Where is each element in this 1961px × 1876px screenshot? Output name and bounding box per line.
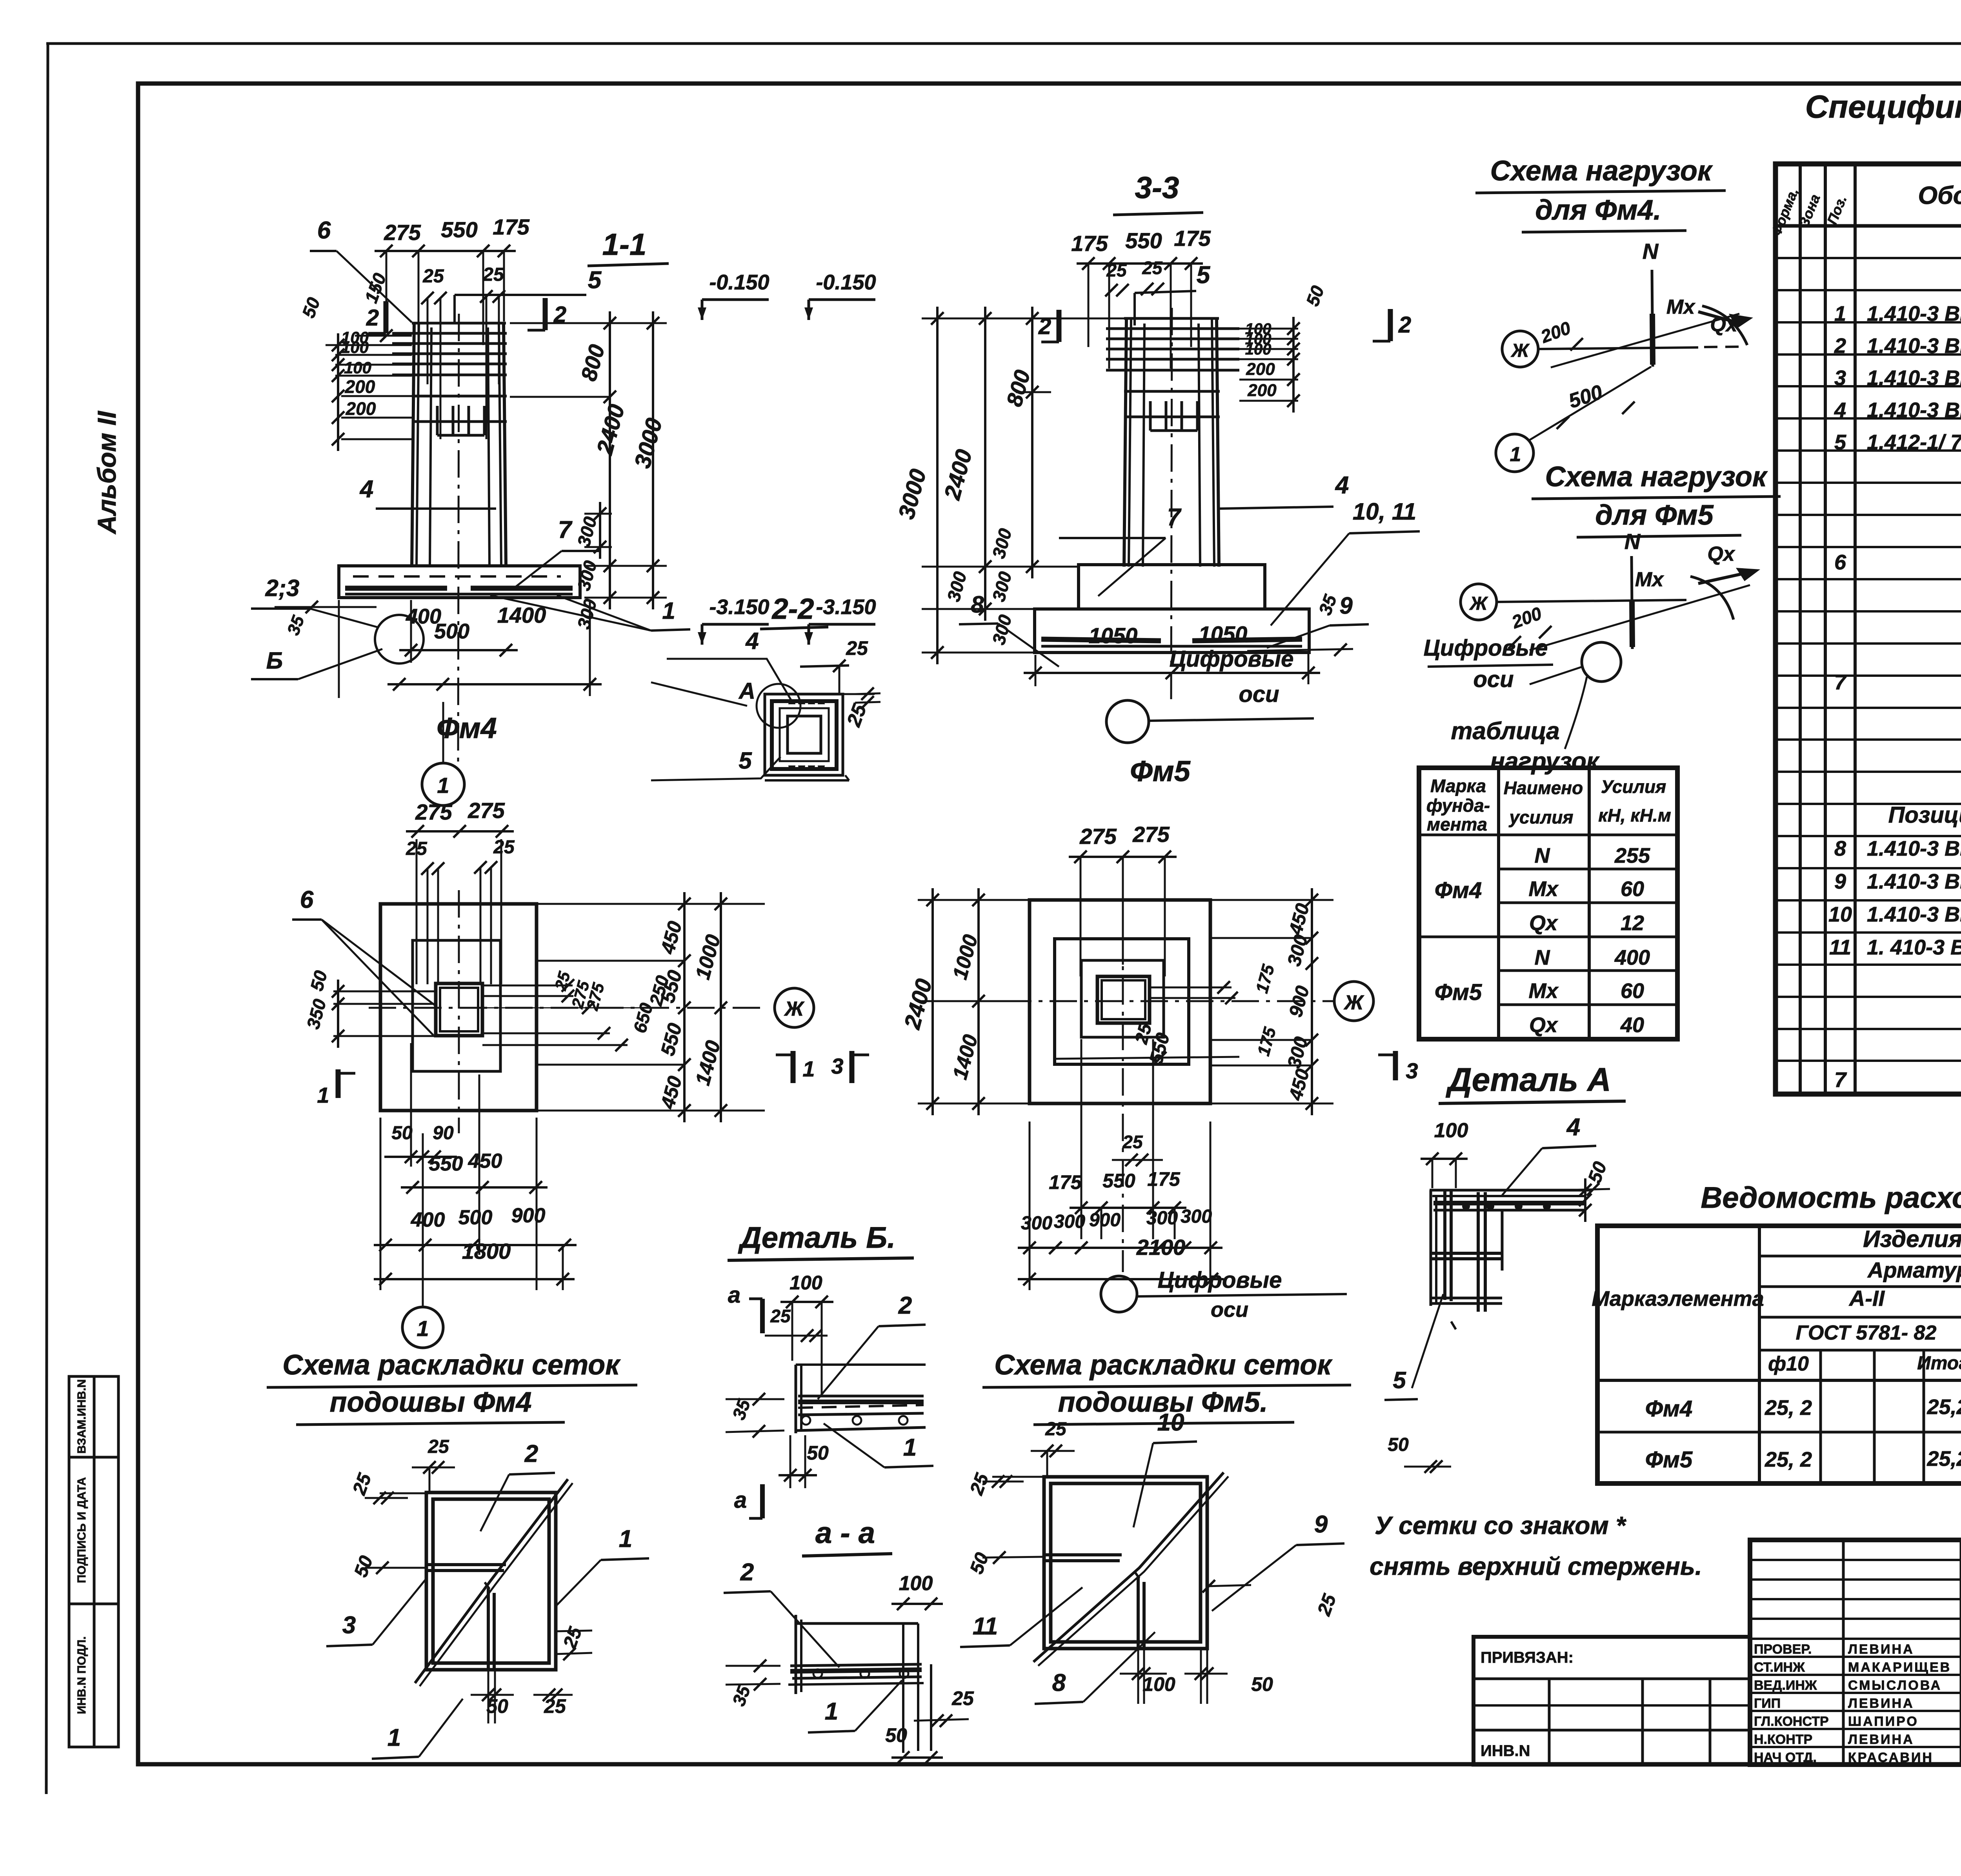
svg-text:Цифровые: Цифровые bbox=[1158, 1267, 1282, 1293]
plan FM5 section mark 3 bbox=[1378, 1051, 1418, 1083]
svg-text:N: N bbox=[1535, 946, 1550, 969]
svg-text:50: 50 bbox=[391, 1123, 413, 1143]
svg-text:1: 1 bbox=[1834, 302, 1846, 325]
section 2-2 dims 25 25 bbox=[800, 637, 880, 730]
plan FM4 outer footing bbox=[380, 904, 537, 1111]
plan FM5 bottom dims 25 175 550 175 bbox=[1049, 1039, 1186, 1239]
svg-text:3: 3 bbox=[1406, 1058, 1418, 1083]
section a-a labels bbox=[724, 1559, 974, 1764]
section 1-1 label B leader bbox=[251, 647, 382, 679]
section 1-1 title bbox=[588, 227, 669, 266]
plan FM5 axis Zh circle bbox=[1334, 982, 1373, 1021]
svg-text:4: 4 bbox=[1335, 472, 1349, 499]
svg-text:оси: оси bbox=[1239, 682, 1279, 707]
svg-text:25: 25 bbox=[951, 1687, 974, 1709]
svg-text:9: 9 bbox=[1314, 1511, 1328, 1538]
svg-text:25: 25 bbox=[1106, 260, 1127, 280]
section 1-1 bottom dims 400 1400 bbox=[339, 600, 602, 698]
svg-text:300: 300 bbox=[1181, 1206, 1212, 1227]
svg-text:МАКАРИЩЕВ: МАКАРИЩЕВ bbox=[1848, 1660, 1951, 1675]
svg-text:50: 50 bbox=[807, 1442, 829, 1464]
section 1-1 label 7 leader bbox=[514, 516, 600, 588]
svg-text:1: 1 bbox=[437, 773, 449, 798]
svg-text:N: N bbox=[1643, 239, 1659, 264]
mesh layout FM5 drawing bbox=[1033, 1472, 1228, 1666]
section 1-1 label 4 leader bbox=[359, 476, 496, 509]
svg-text:1. 410-3 Вып.1: 1. 410-3 Вып.1 bbox=[1867, 936, 1961, 959]
load table data bbox=[1435, 844, 1650, 1037]
svg-text:1: 1 bbox=[417, 1316, 429, 1341]
svg-text:200: 200 bbox=[1247, 381, 1277, 400]
svg-text:Qх: Qх bbox=[1707, 543, 1735, 565]
spec table concrete FM5 bbox=[1834, 1067, 1961, 1092]
svg-text:3-3: 3-3 bbox=[1135, 170, 1179, 205]
svg-text:25: 25 bbox=[544, 1695, 566, 1717]
svg-text:1-1: 1-1 bbox=[602, 227, 647, 262]
svg-text:100: 100 bbox=[1142, 1673, 1175, 1695]
svg-text:2-2: 2-2 bbox=[771, 593, 814, 625]
section 1-1 top dimensions 275 550 175 bbox=[375, 215, 530, 345]
section 1-1 dims 25 25 bbox=[421, 264, 505, 439]
svg-text:1.412-1/ 77 Вот.3.: 1.412-1/ 77 Вот.3. bbox=[1867, 431, 1961, 454]
svg-text:25, 2: 25, 2 bbox=[1765, 1396, 1812, 1420]
svg-text:200: 200 bbox=[1246, 360, 1275, 379]
svg-text:2: 2 bbox=[740, 1559, 754, 1586]
section 3-3 axis circle bbox=[1106, 646, 1314, 743]
svg-text:мента: мента bbox=[1427, 814, 1487, 834]
plan FM5 centre lines bbox=[1004, 886, 1333, 1272]
load table grid bbox=[1419, 768, 1677, 1039]
svg-text:4: 4 bbox=[1834, 398, 1846, 422]
elevation -3.150 (3-3) bbox=[804, 595, 876, 645]
svg-text:90: 90 bbox=[433, 1123, 454, 1143]
steel table data rows bbox=[1645, 1389, 1961, 1477]
svg-text:1: 1 bbox=[825, 1698, 838, 1725]
svg-text:1.410-3 Вып.1: 1.410-3 Вып.1 bbox=[1867, 334, 1961, 358]
svg-text:275: 275 bbox=[1132, 822, 1170, 847]
plan FM5 column formwork bbox=[1097, 976, 1150, 1023]
svg-text:а - а: а - а bbox=[815, 1516, 875, 1550]
svg-text:ВЗАМ.ИНВ.N: ВЗАМ.ИНВ.N bbox=[75, 1379, 88, 1454]
plan FM4 bottom dims 50 90 550 450 400 500 900 1800 bbox=[374, 1043, 577, 1290]
svg-text:ЛЕВИНА: ЛЕВИНА bbox=[1848, 1642, 1914, 1657]
steel consumption title bbox=[1701, 1181, 1961, 1214]
section 1-1 axis circle 1 bbox=[422, 702, 464, 805]
detail B slab bbox=[796, 1365, 926, 1433]
svg-text:400: 400 bbox=[406, 605, 441, 628]
svg-text:Фм5: Фм5 bbox=[1130, 755, 1191, 787]
svg-text:оси: оси bbox=[1211, 1298, 1248, 1322]
svg-text:1.410-3 Вып.1: 1.410-3 Вып.1 bbox=[1867, 302, 1961, 325]
section 3-3 label 7 leader bbox=[1059, 504, 1182, 596]
svg-text:2;3: 2;3 bbox=[265, 575, 300, 601]
plan FM4 inner dims 25 275 275 650 250 bbox=[482, 969, 673, 1051]
svg-text:550: 550 bbox=[1125, 228, 1162, 253]
svg-text:Схема нагрузок: Схема нагрузок bbox=[1545, 461, 1768, 493]
steel table grid bbox=[1597, 1226, 1961, 1483]
svg-text:оси: оси bbox=[1473, 667, 1513, 692]
section 3-3 right small dims 50 100x3 200x2 bbox=[1219, 283, 1328, 413]
mesh layout FM4 title bbox=[267, 1349, 637, 1425]
svg-text:11: 11 bbox=[1829, 936, 1851, 959]
svg-text:Мх: Мх bbox=[1528, 877, 1559, 901]
svg-text:550: 550 bbox=[441, 217, 477, 242]
svg-text:Альбом II: Альбом II bbox=[92, 411, 121, 535]
section 1-1 label 2;3 leader bbox=[251, 575, 378, 627]
svg-text:275: 275 bbox=[415, 800, 452, 824]
load scheme FM5 title bbox=[1532, 461, 1781, 537]
svg-text:275: 275 bbox=[1079, 824, 1117, 849]
plan FM4 left dims 350 50 bbox=[302, 968, 435, 1048]
detail B label 2 leader bbox=[818, 1292, 926, 1399]
svg-text:4: 4 bbox=[745, 628, 759, 654]
svg-text:200: 200 bbox=[345, 376, 375, 397]
svg-text:2: 2 bbox=[366, 305, 379, 331]
svg-text:ГЛ.КОНСТР: ГЛ.КОНСТР bbox=[1754, 1714, 1829, 1729]
section 3-3 label 8 leader bbox=[959, 591, 1059, 667]
svg-text:550: 550 bbox=[1102, 1170, 1135, 1192]
svg-text:Схема раскладки сеток: Схема раскладки сеток bbox=[282, 1349, 621, 1381]
svg-text:275: 275 bbox=[468, 798, 505, 823]
section 1-1 detail circle B bbox=[375, 615, 424, 664]
section 3-3 label 10,11 leader bbox=[1271, 498, 1420, 625]
svg-text:кН, кН.м: кН, кН.м bbox=[1598, 805, 1671, 825]
svg-text:1.410-3 Вып.1: 1.410-3 Вып.1 bbox=[1867, 837, 1961, 860]
svg-text:10: 10 bbox=[1828, 903, 1852, 926]
svg-text:-0.150: -0.150 bbox=[709, 271, 769, 294]
svg-text:усилия: усилия bbox=[1508, 807, 1573, 827]
svg-text:11: 11 bbox=[973, 1613, 998, 1640]
svg-text:60: 60 bbox=[1621, 877, 1644, 901]
svg-text:2: 2 bbox=[1834, 334, 1846, 358]
spec table rows FM4 bbox=[1834, 294, 1961, 454]
svg-text:Мх: Мх bbox=[1635, 568, 1664, 591]
detail B label 1 leader bbox=[824, 1423, 933, 1467]
svg-text:5: 5 bbox=[1197, 262, 1211, 289]
plan FM5 top dims 275 275 bbox=[1069, 822, 1177, 976]
svg-text:8: 8 bbox=[1834, 837, 1846, 860]
svg-text:50: 50 bbox=[885, 1724, 907, 1746]
detail B dim 100 25 bbox=[765, 1272, 833, 1396]
svg-text:Деталь Б.: Деталь Б. bbox=[738, 1221, 895, 1254]
svg-text:Марка: Марка bbox=[1430, 776, 1486, 796]
section 3-3 title bbox=[1113, 170, 1203, 215]
svg-text:300: 300 bbox=[1054, 1211, 1085, 1232]
svg-text:а: а bbox=[728, 1282, 740, 1308]
svg-text:25: 25 bbox=[1142, 258, 1163, 278]
FM4 label bbox=[437, 712, 497, 744]
svg-text:25: 25 bbox=[770, 1306, 791, 1326]
svg-text:Фм4: Фм4 bbox=[1435, 878, 1482, 903]
section 2-2 label 5 leader bbox=[651, 747, 780, 780]
title block outer bbox=[1750, 1540, 1961, 1765]
svg-text:25: 25 bbox=[1122, 1132, 1143, 1152]
section 2-2 column cross-section bbox=[765, 694, 843, 775]
svg-text:3: 3 bbox=[1834, 366, 1846, 390]
svg-text:400: 400 bbox=[411, 1209, 445, 1231]
spec table grid bbox=[1775, 164, 1961, 1094]
FM5 label bbox=[1130, 755, 1191, 787]
section 1-1 dim 35 left bbox=[275, 601, 377, 638]
svg-text:60: 60 bbox=[1621, 979, 1644, 1003]
svg-text:1: 1 bbox=[802, 1056, 815, 1081]
load scheme FM5 diagram bbox=[1461, 529, 1760, 749]
svg-text:175: 175 bbox=[1071, 231, 1108, 256]
svg-text:550: 550 bbox=[429, 1153, 463, 1175]
spec table bolt row bbox=[1834, 546, 1961, 584]
section 1-1 column mesh reinforcement bbox=[392, 333, 507, 435]
svg-text:-0.150: -0.150 bbox=[816, 271, 876, 294]
section 2-2 title bbox=[760, 593, 828, 629]
section 3-3 bottom dims 1050 1050 bbox=[1024, 622, 1320, 686]
plan FM4 column formwork bbox=[436, 983, 482, 1036]
svg-text:Позиции 4, 5 см.: Позиции 4, 5 см. bbox=[1888, 802, 1961, 828]
svg-text:Маркаэлемента: Маркаэлемента bbox=[1592, 1287, 1764, 1311]
svg-text:подошвы Фм4: подошвы Фм4 bbox=[330, 1387, 532, 1418]
svg-text:1800: 1800 bbox=[462, 1239, 511, 1263]
plan FM5 outer footing bbox=[1030, 900, 1210, 1103]
plan FM4 axis Zh circle bbox=[775, 988, 814, 1027]
plan FM5 third step bbox=[1081, 960, 1164, 1037]
svg-text:255: 255 bbox=[1614, 844, 1650, 867]
section 2-2 label 4 leader bbox=[667, 628, 792, 702]
plan FM5 bottom chain 300 300 900 300 300 2100 bbox=[1018, 1122, 1224, 1290]
svg-text:СТ.ИНЖ: СТ.ИНЖ bbox=[1754, 1660, 1805, 1675]
svg-text:-3.150: -3.150 bbox=[709, 595, 769, 619]
svg-text:Усилия: Усилия bbox=[1601, 776, 1666, 797]
svg-text:25: 25 bbox=[846, 637, 868, 659]
svg-text:ПРИВЯЗАН:: ПРИВЯЗАН: bbox=[1481, 1649, 1574, 1666]
svg-text:ПОДПИСЬ И ДАТА: ПОДПИСЬ И ДАТА bbox=[75, 1477, 88, 1583]
svg-text:3: 3 bbox=[342, 1612, 356, 1639]
plan FM4 section marks 1 and 3 bbox=[776, 1051, 869, 1083]
svg-text:Qх: Qх bbox=[1710, 313, 1738, 336]
svg-text:ИНВ.N: ИНВ.N bbox=[1481, 1742, 1530, 1760]
svg-text:100: 100 bbox=[341, 338, 369, 356]
svg-text:25: 25 bbox=[427, 1436, 449, 1457]
svg-text:Н.КОНТР: Н.КОНТР bbox=[1754, 1732, 1812, 1747]
svg-text:175: 175 bbox=[1049, 1171, 1082, 1193]
svg-text:100: 100 bbox=[1434, 1119, 1468, 1142]
svg-text:5: 5 bbox=[1834, 431, 1846, 454]
svg-text:N: N bbox=[1535, 844, 1550, 867]
detail A right dims 50 bbox=[1561, 1159, 1611, 1222]
svg-text:Схема нагрузок: Схема нагрузок bbox=[1490, 155, 1713, 187]
svg-text:400: 400 bbox=[1614, 946, 1650, 969]
section 1-1 dim 500 bbox=[399, 600, 518, 663]
svg-text:СМЫСЛОВА: СМЫСЛОВА bbox=[1848, 1678, 1942, 1693]
mesh layout FM5 title bbox=[982, 1349, 1351, 1425]
mesh layout FM5 dims bbox=[966, 1419, 1341, 1704]
svg-text:Схема раскладки сеток: Схема раскладки сеток bbox=[994, 1349, 1333, 1381]
svg-text:Фм5: Фм5 bbox=[1645, 1447, 1693, 1472]
svg-text:ГИП: ГИП bbox=[1754, 1696, 1781, 1711]
svg-text:Ж: Ж bbox=[1510, 340, 1530, 361]
spec table header texts bbox=[1768, 176, 1961, 238]
svg-text:ф10: ф10 bbox=[1768, 1352, 1809, 1375]
svg-text:3: 3 bbox=[831, 1054, 843, 1078]
plan FM5 inner dims 25 550 bbox=[1055, 981, 1239, 1067]
svg-text:12: 12 bbox=[1621, 911, 1644, 935]
svg-text:1400: 1400 bbox=[497, 603, 546, 627]
specification title bbox=[1805, 89, 1961, 161]
section 3-3 column mesh reinforcement bbox=[1106, 329, 1239, 431]
section a-a title bbox=[802, 1516, 892, 1556]
svg-text:25: 25 bbox=[493, 837, 515, 858]
svg-text:2: 2 bbox=[524, 1440, 538, 1467]
svg-text:Обозначение: Обозначение bbox=[1918, 181, 1961, 209]
section 3-3 dims 25 25 bbox=[1105, 258, 1164, 296]
left margin stamp boxes bbox=[69, 1376, 118, 1747]
section 1-1 label 5 leader bbox=[455, 267, 602, 322]
detail A label 5 leader bbox=[1384, 1294, 1443, 1400]
section a-a drawing bbox=[788, 1615, 931, 1753]
svg-text:для Фм5: для Фм5 bbox=[1595, 500, 1714, 531]
svg-text:500: 500 bbox=[458, 1206, 493, 1229]
section 1-1 section marks 2-2 bbox=[366, 298, 566, 333]
svg-text:фунда-: фунда- bbox=[1426, 795, 1490, 816]
detail A slab corner bbox=[1430, 1190, 1590, 1329]
svg-text:N: N bbox=[1624, 529, 1641, 554]
svg-text:50: 50 bbox=[1388, 1434, 1409, 1455]
svg-text:НАЧ ОТД.: НАЧ ОТД. bbox=[1754, 1750, 1817, 1765]
svg-text:Ж: Ж bbox=[1469, 593, 1488, 614]
svg-text:300: 300 bbox=[1021, 1213, 1052, 1234]
plan FM4 axis circle 1 bottom bbox=[402, 1133, 443, 1348]
spec table positions note bbox=[1888, 800, 1961, 828]
svg-text:8: 8 bbox=[971, 591, 984, 618]
section 3-3 footing steps bbox=[1035, 565, 1309, 653]
svg-text:2100: 2100 bbox=[1136, 1235, 1186, 1260]
svg-text:5: 5 bbox=[1393, 1367, 1406, 1393]
section 3-3 left dims 800 2400 3000 bbox=[893, 307, 1124, 664]
svg-text:5: 5 bbox=[739, 747, 752, 774]
steel table header texts bbox=[1592, 1226, 1961, 1375]
section 1-1 right dims 800 2400 3000 bbox=[510, 311, 667, 631]
svg-text:200: 200 bbox=[346, 398, 376, 419]
mesh layout FM4 dims bbox=[349, 1436, 592, 1723]
section 1-1 label 6 leader bbox=[310, 217, 412, 322]
svg-text:900: 900 bbox=[1089, 1210, 1121, 1231]
svg-text:У сетки со знаком *: У сетки со знаком * bbox=[1375, 1511, 1627, 1540]
svg-text:1.410-3 Вып.1: 1.410-3 Вып.1 bbox=[1867, 903, 1961, 926]
svg-text:50: 50 bbox=[1251, 1673, 1273, 1695]
svg-text:-3.150: -3.150 bbox=[816, 595, 876, 619]
svg-text:275: 275 bbox=[384, 220, 421, 245]
svg-text:1: 1 bbox=[619, 1525, 632, 1552]
plan FM4 centre lines bbox=[369, 890, 765, 1133]
svg-text:2: 2 bbox=[898, 1292, 912, 1319]
svg-text:8: 8 bbox=[1052, 1669, 1066, 1696]
svg-text:6: 6 bbox=[1834, 551, 1846, 574]
load scheme FM4 diagram bbox=[1496, 239, 1753, 472]
svg-text:7: 7 bbox=[558, 516, 573, 544]
svg-text:7: 7 bbox=[1834, 1068, 1847, 1092]
section 1-1 left small dims 50 150 100x3 200x2 bbox=[298, 270, 412, 451]
svg-text:Qх: Qх bbox=[1529, 911, 1558, 935]
detail A bottom dim 50 bbox=[1388, 1434, 1451, 1473]
note about mesh with asterisk bbox=[1370, 1511, 1702, 1580]
svg-text:1: 1 bbox=[1510, 443, 1521, 466]
svg-text:6: 6 bbox=[317, 217, 331, 244]
svg-text:Итого: Итого bbox=[1917, 1353, 1961, 1374]
svg-text:5: 5 bbox=[588, 267, 602, 294]
svg-text:Деталь А: Деталь А bbox=[1446, 1061, 1611, 1098]
elevation -0.150 (3-3) bbox=[804, 271, 876, 320]
plan FM4 right dim chain 450 550 550 450 / 1000 1400 bbox=[537, 892, 765, 1122]
svg-text:Мх: Мх bbox=[1528, 979, 1559, 1003]
detail B dim 35 left bbox=[726, 1393, 784, 1438]
svg-text:Qх: Qх bbox=[1529, 1013, 1558, 1037]
svg-text:100: 100 bbox=[899, 1572, 933, 1595]
section 2-2 detail circle A bbox=[651, 678, 800, 728]
svg-text:таблица: таблица bbox=[1451, 718, 1559, 745]
load scheme FM4 title bbox=[1475, 155, 1726, 232]
svg-text:450: 450 bbox=[468, 1150, 502, 1172]
section 1-1 label 1 leaders bbox=[490, 595, 690, 631]
svg-text:9: 9 bbox=[1339, 593, 1353, 619]
detail A title bbox=[1439, 1061, 1626, 1103]
svg-text:Арматура класса: Арматура класса bbox=[1867, 1258, 1961, 1282]
svg-text:175: 175 bbox=[1174, 226, 1211, 251]
svg-text:1: 1 bbox=[387, 1724, 401, 1751]
svg-text:2: 2 bbox=[1398, 312, 1411, 338]
svg-text:4: 4 bbox=[1566, 1114, 1580, 1141]
svg-text:ЛЕВИНА: ЛЕВИНА bbox=[1848, 1696, 1914, 1711]
section 2-2 bottom extension bbox=[765, 775, 849, 780]
title block signature grid bbox=[1750, 1540, 1961, 1776]
load scheme FM5 axis label bbox=[1424, 635, 1553, 692]
plan FM5 left dims 2400 1000 1400 bbox=[899, 888, 1030, 1115]
svg-text:1: 1 bbox=[903, 1434, 917, 1461]
svg-text:Цифровые: Цифровые bbox=[1170, 646, 1294, 672]
svg-text:7: 7 bbox=[1167, 504, 1182, 531]
svg-text:4: 4 bbox=[359, 476, 373, 503]
plan FM4 middle step bbox=[413, 940, 500, 1071]
svg-text:10, 11: 10, 11 bbox=[1353, 498, 1416, 525]
mesh layout FM4 labels bbox=[326, 1440, 649, 1759]
svg-text:Б: Б bbox=[266, 647, 283, 674]
plan FM4 section marks 1 bottom-left bbox=[317, 1069, 355, 1107]
plan FM5 right dim chain 450 300 900 300 450 bbox=[1210, 888, 1333, 1115]
spec table concrete FM4 bbox=[1834, 669, 1961, 694]
svg-text:нагрузок: нагрузок bbox=[1490, 748, 1600, 775]
svg-text:100: 100 bbox=[344, 358, 371, 377]
detail A dim 100 bbox=[1421, 1119, 1468, 1188]
svg-text:Наимено: Наимено bbox=[1504, 778, 1583, 798]
load table header texts bbox=[1426, 776, 1671, 834]
load table title bbox=[1451, 718, 1600, 775]
svg-text:1.410-3 Вып.1: 1.410-3 Вып.1 bbox=[1867, 870, 1961, 893]
mesh layout FM5 labels bbox=[960, 1409, 1344, 1704]
svg-text:А-II: А-II bbox=[1848, 1286, 1885, 1311]
svg-text:А: А bbox=[738, 678, 755, 704]
plan FM4 top dims 275 275 25 25 bbox=[406, 798, 515, 984]
detail B title bbox=[728, 1221, 914, 1260]
plan FM5 middle step bbox=[1055, 939, 1189, 1064]
svg-text:1050: 1050 bbox=[1199, 622, 1248, 646]
svg-text:40: 40 bbox=[1620, 1013, 1644, 1037]
svg-text:6: 6 bbox=[300, 886, 314, 913]
svg-text:ГОСТ 5781- 82: ГОСТ 5781- 82 bbox=[1796, 1322, 1937, 1344]
svg-text:снять верхний стержень.: снять верхний стержень. bbox=[1370, 1552, 1702, 1580]
svg-text:Мх: Мх bbox=[1666, 296, 1695, 318]
svg-text:ИНВ.N ПОДЛ.: ИНВ.N ПОДЛ. bbox=[75, 1636, 88, 1714]
svg-text:1: 1 bbox=[317, 1083, 329, 1107]
detail B mark a bottom bbox=[734, 1484, 762, 1518]
svg-text:Цифровые: Цифровые bbox=[1424, 635, 1548, 661]
section 3-3 top dimensions 175 550 175 bbox=[1071, 226, 1211, 369]
